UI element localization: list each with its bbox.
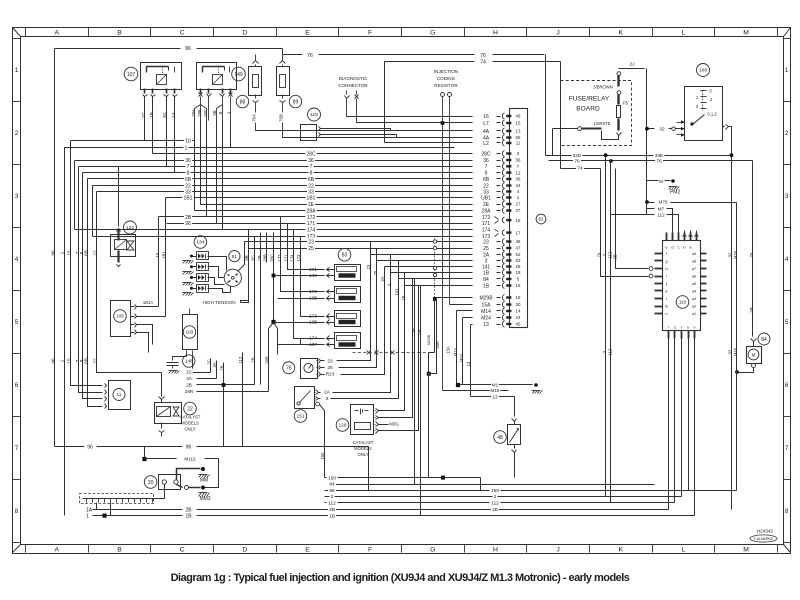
wire 32 vertical right xyxy=(731,127,733,510)
svg-text:3: 3 xyxy=(785,193,789,200)
injector 1 return wire xyxy=(274,275,319,277)
svg-text:UB1: UB1 xyxy=(481,195,491,201)
wire 2A drop xyxy=(333,255,391,393)
svg-text:FUSE/RELAY: FUSE/RELAY xyxy=(569,96,610,103)
component 76 label circle xyxy=(283,362,295,374)
svg-text:25: 25 xyxy=(327,365,333,371)
svg-text:H: H xyxy=(493,29,498,36)
injector 1 body xyxy=(335,265,361,281)
svg-text:74: 74 xyxy=(480,59,486,65)
wire 174 drop xyxy=(294,230,323,339)
svg-text:28B: 28B xyxy=(197,109,202,117)
fuel pump 84 body xyxy=(747,347,762,364)
wire 112 mid vertical xyxy=(242,353,244,447)
spark plug 3 xyxy=(197,274,209,282)
svg-text:150: 150 xyxy=(320,452,325,460)
svg-text:1B: 1B xyxy=(417,329,422,334)
spark plug 2 xyxy=(197,263,209,271)
sensor 48 label circle xyxy=(494,431,507,444)
svg-text:k: k xyxy=(666,289,668,294)
svg-text:1: 1 xyxy=(185,145,188,151)
svg-text:96: 96 xyxy=(185,46,191,52)
svg-text:112: 112 xyxy=(657,213,665,218)
svg-text:M3G: M3G xyxy=(389,422,399,427)
wire 74 vertical right xyxy=(560,62,562,169)
wire 112 bottom row xyxy=(325,502,675,504)
svg-text:a9: a9 xyxy=(692,252,696,256)
svg-text:172: 172 xyxy=(277,254,282,262)
component 151 pins xyxy=(316,390,319,395)
svg-text:174: 174 xyxy=(482,227,491,233)
wire 3 drop xyxy=(331,261,399,399)
distributor 51 label circle xyxy=(229,251,240,262)
wire 13 down to sensor 48 xyxy=(514,397,516,417)
svg-text:96: 96 xyxy=(185,221,191,227)
svg-text:172: 172 xyxy=(309,289,317,295)
injection coding resistor wires xyxy=(442,97,444,391)
svg-text:3: 3 xyxy=(326,396,329,402)
svg-text:28A: 28A xyxy=(191,109,196,117)
fuel pump 84 label circle xyxy=(758,333,770,345)
svg-text:J: J xyxy=(556,29,559,36)
svg-text:E: E xyxy=(305,29,310,36)
wire 96 bottom row xyxy=(55,446,85,448)
svg-text:16A: 16A xyxy=(435,341,440,349)
svg-text:76: 76 xyxy=(574,159,580,165)
svg-text:G: G xyxy=(430,29,435,36)
svg-text:174: 174 xyxy=(290,254,295,262)
svg-text:23: 23 xyxy=(483,239,489,245)
svg-text:a3: a3 xyxy=(692,297,696,301)
wire row 9 y172.6 xyxy=(83,172,473,174)
ignition coil 103 body xyxy=(183,315,198,350)
fuse 89 label circle xyxy=(289,95,301,107)
svg-text:149: 149 xyxy=(234,72,243,78)
component 128 pin wires xyxy=(379,273,405,411)
svg-text:M7: M7 xyxy=(658,206,665,211)
junction 33E at 32 xyxy=(730,153,734,157)
ignition switch 108 body xyxy=(685,87,723,141)
coil terminals bottom xyxy=(186,351,188,357)
svg-text:137: 137 xyxy=(309,342,317,348)
svg-text:H24342: H24342 xyxy=(757,529,774,534)
svg-text:3A: 3A xyxy=(212,362,217,367)
spark plug 1 earth xyxy=(183,261,186,264)
wire row 28C y153.5 xyxy=(153,153,473,155)
wire row 2A y254.5 xyxy=(371,254,473,256)
svg-text:173: 173 xyxy=(296,254,301,262)
component 105 body xyxy=(111,301,131,337)
wire 84 long vertical xyxy=(414,279,416,485)
wire 96 left vertical xyxy=(54,49,56,447)
svg-text:M: M xyxy=(743,29,749,36)
wire 16 vertical xyxy=(158,217,160,307)
wire 76 vertical right xyxy=(545,55,547,156)
svg-text:76: 76 xyxy=(307,53,313,59)
wire 74 top run xyxy=(385,61,475,63)
svg-text:2B: 2B xyxy=(492,507,498,513)
svg-text:13: 13 xyxy=(483,322,489,328)
svg-text:M24: M24 xyxy=(459,353,464,362)
svg-text:D: D xyxy=(242,547,247,554)
wire row 28A y210.5 xyxy=(195,210,473,212)
svg-text:2E: 2E xyxy=(613,254,618,259)
svg-text:9: 9 xyxy=(485,170,488,176)
earth strip bus xyxy=(83,498,165,500)
svg-text:1/WHITE: 1/WHITE xyxy=(594,121,611,126)
wire 96/150 bottom row xyxy=(325,490,737,492)
wire 25 drop to ECU row xyxy=(339,249,377,368)
svg-text:a2: a2 xyxy=(692,305,696,309)
svg-text:1B1A: 1B1A xyxy=(143,300,153,305)
relay 149 body xyxy=(197,63,237,90)
ignition switch output xyxy=(723,126,725,128)
ECU 82 pins xyxy=(502,113,504,119)
wire 13 drop xyxy=(470,325,472,397)
svg-text:108: 108 xyxy=(699,68,707,74)
distributor 51 cap xyxy=(224,269,241,286)
component 151 body xyxy=(295,387,315,409)
svg-text:13: 13 xyxy=(466,361,471,366)
svg-text:v: v xyxy=(694,325,696,330)
svg-text:d: d xyxy=(671,245,673,250)
svg-text:172: 172 xyxy=(482,215,491,221)
svg-text:R23: R23 xyxy=(326,372,335,378)
svg-text:i: i xyxy=(666,274,667,279)
svg-text:148: 148 xyxy=(185,359,193,364)
spark plug 4 earth xyxy=(183,293,186,296)
svg-text:28C: 28C xyxy=(270,254,275,262)
relay 149 label circle xyxy=(232,67,246,81)
earth strip tap 1 xyxy=(110,503,112,516)
wire 74 to 110 pin i xyxy=(601,169,649,277)
svg-text:1B: 1B xyxy=(186,514,193,520)
svg-text:76: 76 xyxy=(749,252,754,257)
plug leads to distributor xyxy=(208,257,227,271)
wire 23 drop to ECU row xyxy=(337,242,371,361)
svg-text:g: g xyxy=(665,259,667,264)
svg-text:a6: a6 xyxy=(692,275,696,279)
svg-text:32: 32 xyxy=(659,126,665,132)
component 105 pin wires xyxy=(137,306,159,308)
wire 84 bottom row xyxy=(329,484,655,486)
svg-text:15A: 15A xyxy=(482,302,492,308)
svg-text:17: 17 xyxy=(516,230,521,235)
row numbers left band xyxy=(13,38,21,40)
svg-text:CATALYST: CATALYST xyxy=(353,440,374,445)
wire 2J/32 vertical xyxy=(646,69,648,215)
svg-text:112: 112 xyxy=(238,356,243,363)
svg-text:25: 25 xyxy=(308,246,314,252)
svg-text:14: 14 xyxy=(516,309,521,314)
component 151 lower wire xyxy=(316,402,320,406)
svg-text:2B: 2B xyxy=(257,255,262,260)
svg-text:28: 28 xyxy=(516,264,521,269)
spark plug 3 earth xyxy=(183,283,186,286)
spark plug 1 xyxy=(197,252,209,260)
relay 107 body xyxy=(141,63,182,90)
component 119 pins and wires xyxy=(319,127,321,131)
wire 150 row xyxy=(324,435,326,478)
svg-text:RESISTOR: RESISTOR xyxy=(434,83,458,88)
earth strip to component 20 xyxy=(164,485,166,499)
connector 110 top arrows xyxy=(683,235,687,237)
junction M wires xyxy=(456,383,460,387)
left bundle wire 1 xyxy=(64,148,66,516)
wire 1B long vertical xyxy=(420,286,422,516)
svg-text:c: c xyxy=(678,245,680,250)
wire M7 row xyxy=(647,208,655,210)
wire 171 drop xyxy=(288,224,323,270)
svg-text:8: 8 xyxy=(785,508,789,515)
component 122 top wire xyxy=(118,167,120,227)
wire 173 drop xyxy=(301,237,323,317)
svg-text:82: 82 xyxy=(538,217,544,222)
component 128 label circle xyxy=(336,419,349,432)
relay 149 terminal wires split xyxy=(200,97,202,121)
wire 32D row xyxy=(546,155,641,157)
svg-text:171: 171 xyxy=(284,254,289,262)
svg-text:INJECTION: INJECTION xyxy=(434,69,458,74)
svg-text:a7: a7 xyxy=(692,267,696,271)
wire 2J into board xyxy=(619,68,645,70)
svg-text:BOARD: BOARD xyxy=(576,106,600,113)
svg-text:5: 5 xyxy=(15,319,19,326)
svg-text:15: 15 xyxy=(67,250,72,256)
svg-text:1: 1 xyxy=(86,514,89,520)
svg-text:88: 88 xyxy=(240,99,246,105)
svg-text:2: 2 xyxy=(15,130,19,137)
injectors 83 label circle xyxy=(338,248,351,261)
wire M1 to earth xyxy=(459,384,533,386)
wire row 33 y191.5 xyxy=(97,191,473,193)
svg-text:1B: 1B xyxy=(483,283,490,289)
component 119 label circle xyxy=(308,108,321,121)
svg-text:6B: 6B xyxy=(483,177,490,183)
wire M76 row xyxy=(645,200,649,204)
connector 110 left pin circles xyxy=(649,267,653,271)
svg-text:4A: 4A xyxy=(483,129,490,135)
svg-text:83: 83 xyxy=(342,253,348,259)
wire 96 top supply xyxy=(55,48,181,50)
svg-text:6B: 6B xyxy=(84,358,89,364)
svg-text:4: 4 xyxy=(15,256,19,263)
component 122 bottom wire xyxy=(117,251,119,263)
svg-text:112: 112 xyxy=(608,251,613,258)
junction mid drop xyxy=(427,372,431,376)
wire 76 top run xyxy=(283,54,303,56)
svg-text:10: 10 xyxy=(185,138,191,144)
svg-text:l: l xyxy=(666,296,667,301)
svg-text:22: 22 xyxy=(187,406,193,412)
svg-text:11: 11 xyxy=(516,141,521,146)
coil output wires xyxy=(193,359,211,373)
svg-text:2: 2 xyxy=(494,494,497,500)
svg-text:M76: M76 xyxy=(733,347,738,356)
svg-text:M: M xyxy=(743,547,749,554)
svg-text:PM2: PM2 xyxy=(670,190,681,196)
sensor 48 bottom wire xyxy=(514,445,516,449)
component 22 body xyxy=(155,403,182,424)
svg-text:5: 5 xyxy=(785,319,789,326)
wire M19 xyxy=(443,390,509,392)
component 128 body xyxy=(351,405,374,435)
wire row 172 y217.0 xyxy=(159,216,473,218)
connector 110 right pins xyxy=(701,253,707,255)
wire 76 right row xyxy=(549,160,753,162)
component 20 body xyxy=(159,475,181,490)
wire M76 vertical right xyxy=(736,203,738,491)
wire row 141 y266.5 xyxy=(385,266,473,268)
column letters bottom band xyxy=(25,545,27,553)
spark plug 4 xyxy=(197,285,209,293)
relay 149 terminals xyxy=(200,89,202,94)
svg-text:1B: 1B xyxy=(401,295,406,300)
svg-text:96: 96 xyxy=(186,445,192,451)
row numbers right band xyxy=(784,38,791,40)
svg-text:M76: M76 xyxy=(733,250,738,259)
frame corner bevels xyxy=(13,28,21,37)
component 105 pins xyxy=(135,305,137,310)
svg-text:2J: 2J xyxy=(629,62,635,68)
ignition switch feed arrows xyxy=(677,122,685,124)
svg-text:15: 15 xyxy=(516,121,521,126)
svg-text:84: 84 xyxy=(761,337,767,343)
wire row 7 y166.3 xyxy=(79,166,473,168)
svg-text:1A: 1A xyxy=(86,507,93,513)
svg-text:2C: 2C xyxy=(141,111,146,118)
svg-text:1B1: 1B1 xyxy=(184,195,193,201)
svg-text:32: 32 xyxy=(728,252,733,257)
wire 1A/2B bottom row xyxy=(93,509,183,511)
wire 2C up stub xyxy=(210,359,212,373)
svg-text:H: H xyxy=(493,547,498,554)
svg-text:Diagram 1g : Typical fuel inje: Diagram 1g : Typical fuel injection and … xyxy=(171,572,630,584)
wire row M14 y311.0 xyxy=(457,310,473,312)
svg-text:46: 46 xyxy=(516,114,521,119)
svg-text:24: 24 xyxy=(516,315,521,320)
component 76 body xyxy=(301,359,318,379)
svg-text:28C: 28C xyxy=(203,109,208,117)
left bundle wire 9 to comp11 xyxy=(83,173,103,399)
svg-text:h: h xyxy=(665,266,667,271)
svg-text:MODELS: MODELS xyxy=(181,421,199,426)
svg-text:6: 6 xyxy=(15,382,19,389)
ignition switch 108 label circle xyxy=(697,64,710,77)
component 11 body xyxy=(109,381,131,410)
svg-text:7: 7 xyxy=(485,164,488,170)
svg-text:74: 74 xyxy=(596,252,601,257)
svg-text:174: 174 xyxy=(309,336,317,342)
earth strip tap 1A xyxy=(96,503,98,510)
junction on wire 2B xyxy=(222,383,226,387)
connector 110 bottom pins xyxy=(668,331,670,339)
svg-text:16: 16 xyxy=(155,252,160,257)
wire 3C vertical xyxy=(254,237,256,385)
svg-text:36: 36 xyxy=(483,158,489,164)
svg-text:F: F xyxy=(368,547,372,554)
svg-text:DIAGNOSTIC: DIAGNOSTIC xyxy=(339,76,368,81)
screened cable junction xyxy=(433,297,437,301)
svg-text:CONNECTOR: CONNECTOR xyxy=(338,83,368,88)
wire 172 drop xyxy=(281,217,323,292)
wire row 2E y204.0 xyxy=(201,204,473,206)
component 20 label circle xyxy=(144,476,157,489)
connector 110 box xyxy=(663,241,701,331)
svg-text:M19: M19 xyxy=(491,388,500,393)
wire row 171 y223.25 xyxy=(167,223,473,225)
svg-text:48: 48 xyxy=(497,435,503,441)
svg-text:12: 12 xyxy=(516,170,521,175)
wire R23 to 141 drop xyxy=(341,267,385,375)
junction injector return 1 xyxy=(272,274,276,278)
component 11 pins xyxy=(105,384,107,388)
svg-text:30: 30 xyxy=(516,302,521,307)
svg-text:3B: 3B xyxy=(212,110,217,115)
spark plug 2 earth xyxy=(183,272,186,275)
component 122 label circle xyxy=(124,221,137,234)
injection coding resistor pins xyxy=(441,93,445,97)
svg-text:M29B: M29B xyxy=(426,334,431,345)
wire row 1B y272.5 xyxy=(391,272,473,274)
svg-text:7: 7 xyxy=(15,445,19,452)
svg-text:2: 2 xyxy=(331,494,334,500)
svg-text:7: 7 xyxy=(785,445,789,452)
svg-text:171: 171 xyxy=(309,267,317,273)
svg-text:171: 171 xyxy=(482,221,491,227)
diagnostic connector wires xyxy=(347,99,473,117)
junction injector return 2 xyxy=(271,320,275,324)
wire 13 row xyxy=(471,396,515,398)
svg-text:2B: 2B xyxy=(251,357,256,362)
svg-text:B: B xyxy=(117,547,122,554)
wire M112 xyxy=(144,447,146,459)
svg-text:1B: 1B xyxy=(329,513,335,519)
svg-text:8: 8 xyxy=(15,508,19,515)
wire 3A up stub xyxy=(216,361,218,379)
svg-text:MM: MM xyxy=(200,478,208,484)
fuse 88 body xyxy=(249,67,262,96)
svg-text:2A: 2A xyxy=(324,390,331,396)
wire row M24 y317.5 xyxy=(463,317,473,319)
svg-text:M1: M1 xyxy=(492,383,499,388)
svg-text:141: 141 xyxy=(394,288,399,296)
svg-text:128: 128 xyxy=(338,423,346,429)
svg-text:74: 74 xyxy=(577,166,583,172)
injector 3 return wire xyxy=(274,322,319,324)
condenser 148 xyxy=(183,355,195,367)
svg-text:76: 76 xyxy=(480,53,486,59)
svg-text:1B: 1B xyxy=(483,270,490,276)
svg-text:L: L xyxy=(682,29,686,36)
svg-text:110: 110 xyxy=(679,300,687,305)
svg-text:1: 1 xyxy=(785,67,789,74)
svg-text:1B1: 1B1 xyxy=(162,251,167,259)
component 151 label circle xyxy=(294,410,307,423)
svg-text:103: 103 xyxy=(186,330,194,335)
svg-text:1B: 1B xyxy=(149,112,154,118)
svg-text:2E: 2E xyxy=(483,202,490,208)
svg-text:2B: 2B xyxy=(749,307,754,312)
component 122 body xyxy=(111,235,136,257)
wire row 3 y260.5 xyxy=(377,260,473,262)
wire row 84 y279.0 xyxy=(399,278,473,280)
wire row 173 y236.0 xyxy=(93,236,473,238)
svg-text:112: 112 xyxy=(608,348,613,355)
svg-text:u: u xyxy=(687,325,689,330)
left bundle wire 33 to valve 22 xyxy=(97,192,162,373)
wire 32 row xyxy=(645,127,649,131)
